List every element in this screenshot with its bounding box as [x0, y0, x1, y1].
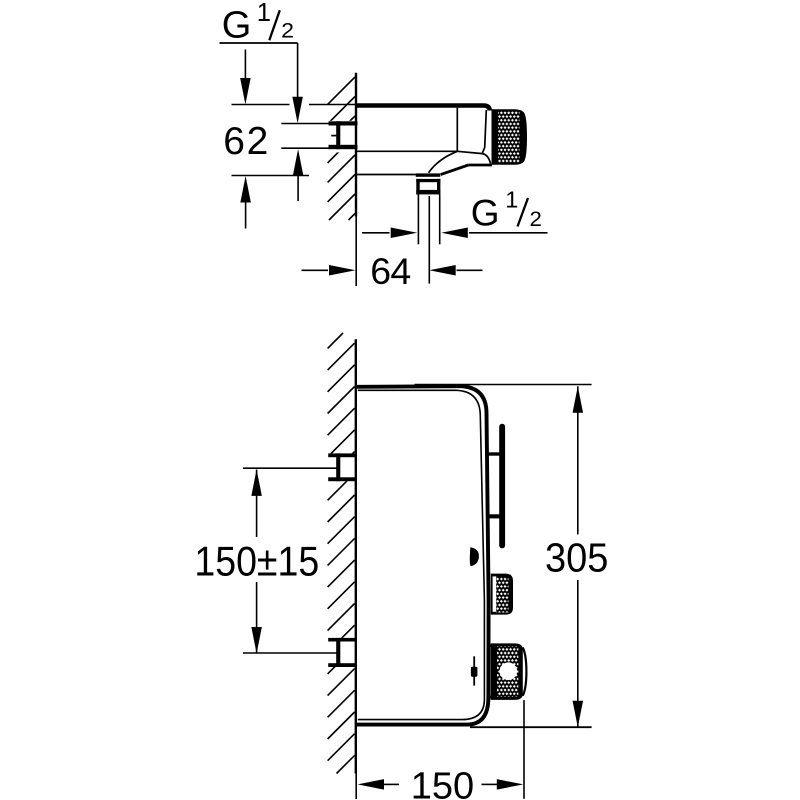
label G 1/2 (top inlet thread)	[222, 0, 294, 46]
label G 1/2 (outlet thread)	[471, 187, 542, 234]
shower paddle bar	[499, 424, 505, 549]
leader underline G1/2	[220, 42, 298, 44]
150±15 top extension line	[243, 467, 337, 469]
outlet thread arrow left	[362, 228, 417, 239]
svg-text:150: 150	[411, 766, 474, 800]
wall face line (top view)	[355, 73, 357, 217]
svg-text:150±15: 150±15	[194, 538, 319, 585]
dim 64 left arrow	[302, 265, 356, 276]
knob extension line (150 dim)	[523, 700, 525, 799]
outlet thread arrow right with leader	[441, 228, 547, 239]
dim 305 line+arrows	[573, 386, 584, 727]
305 top extension line	[415, 384, 592, 386]
extension line top of body	[232, 104, 356, 106]
arrow up at pipe bottom	[293, 149, 304, 201]
leader arrow down to pipe top	[292, 97, 303, 124]
hose outlet centerline	[428, 196, 430, 284]
wall face extension (150 dim)	[355, 774, 357, 800]
arrow up at 62 bottom line	[240, 176, 251, 229]
wall union square (top view)	[329, 121, 358, 149]
wall face line (side view)	[355, 339, 357, 773]
extension line bottom (62)	[232, 175, 310, 177]
svg-text:305: 305	[545, 534, 608, 580]
paddle stems	[488, 452, 500, 518]
150±15 bottom extension line	[243, 652, 337, 654]
svg-text:G: G	[222, 4, 252, 46]
volume knob	[491, 574, 513, 615]
hose outlet outer lines	[418, 194, 439, 244]
valve body bottom edge	[357, 150, 457, 152]
thermostat body outline	[357, 386, 489, 724]
svg-text:G: G	[471, 193, 500, 234]
svg-text:1: 1	[257, 0, 271, 27]
svg-text:62: 62	[223, 120, 268, 163]
knurled adjuster knob (top view)	[492, 109, 528, 165]
dim 150 left arrow	[358, 779, 400, 790]
hatch gap for wall union	[326, 121, 356, 153]
body underside front curve	[429, 151, 458, 173]
drop mark on front face	[470, 547, 479, 566]
svg-text:1: 1	[505, 187, 518, 213]
body inner contour line	[358, 390, 485, 719]
outlet flange bar	[416, 173, 441, 176]
hatch gap upper bracket	[326, 453, 356, 481]
svg-text:2: 2	[281, 18, 294, 42]
temperature safestop mark	[471, 656, 478, 685]
305 bottom extension line	[470, 726, 592, 728]
arrow down at body top	[240, 50, 251, 105]
body underside rear line	[457, 151, 490, 163]
lower wall bracket	[328, 638, 356, 667]
inlet pipe lines	[281, 124, 336, 149]
dim 64 right arrow	[429, 265, 482, 276]
dim 150 right arrow	[482, 779, 524, 790]
valve body internal edge	[456, 108, 458, 152]
union centerline dash	[331, 135, 336, 137]
leader vertical to inlet	[297, 43, 299, 98]
wall face extension line	[355, 217, 357, 287]
valve body top edge	[357, 106, 490, 111]
outlet fitting square	[416, 179, 440, 195]
svg-text:64: 64	[370, 250, 411, 292]
valve body right end edge	[482, 110, 486, 154]
body underside line to wall	[357, 174, 416, 176]
body bottom thick edge	[441, 165, 492, 175]
hatch gap lower bracket	[326, 638, 356, 667]
upper wall bracket	[328, 453, 356, 481]
wall hatching (top view)	[328, 77, 355, 220]
dim 150±15 line+arrows	[251, 469, 262, 653]
wall hatching (side view)	[328, 333, 355, 774]
thermostat knob	[490, 643, 527, 700]
svg-text:2: 2	[530, 207, 542, 231]
